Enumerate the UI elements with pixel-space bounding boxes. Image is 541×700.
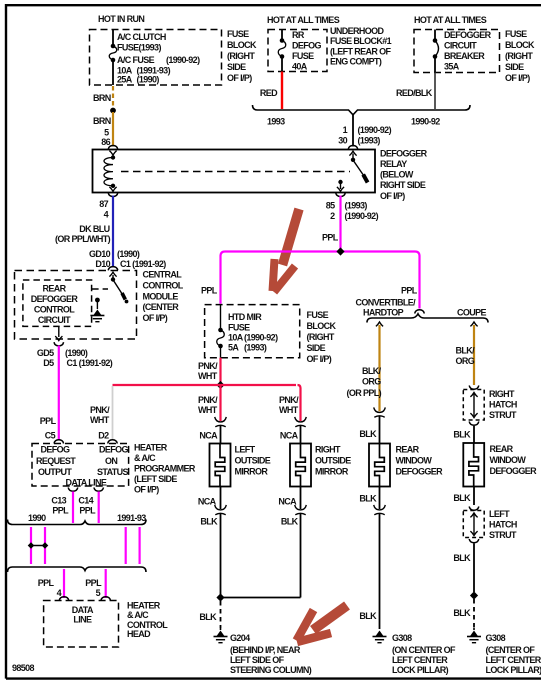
wire into A/C fuse: [112, 30, 114, 46]
relay coil: [104, 158, 113, 186]
svg-text:D10: D10: [95, 259, 110, 269]
svg-text:C14: C14: [78, 496, 93, 506]
wire PPL bus horizontal: [221, 252, 420, 309]
connector bump pin 85: [336, 193, 346, 197]
splice dot BRN: [110, 108, 116, 114]
wire below left mirror: [220, 487, 222, 510]
fuse A/C CLUTCH/A-C FUSE: [111, 44, 116, 49]
fuse RR DEFOG 40A: [280, 38, 285, 43]
brace 1990/1991-93 top: [8, 520, 147, 525]
svg-text:OUTSIDE: OUTSIDE: [235, 456, 271, 466]
svg-text:RIGHT SIDE: RIGHT SIDE: [380, 180, 426, 190]
data line box: [44, 601, 119, 648]
wire into RR fuse: [281, 30, 283, 41]
connector bump GD5: [54, 342, 64, 346]
fuse block box (RR DEFOG): [268, 30, 327, 72]
wire 1990 splice right: [44, 527, 46, 564]
svg-text:STRUT: STRUT: [489, 530, 517, 540]
svg-text:BRN: BRN: [93, 93, 111, 103]
wire into right mirror: [300, 426, 302, 444]
svg-text:(1990-92): (1990-92): [166, 55, 200, 65]
svg-text:BLK: BLK: [359, 494, 377, 504]
svg-text:(BEHIND I/P, NEAR: (BEHIND I/P, NEAR: [230, 645, 301, 655]
svg-text:4: 4: [57, 588, 62, 598]
wire into left mirror: [220, 426, 222, 444]
svg-text:C5: C5: [45, 431, 56, 441]
svg-text:G204: G204: [230, 633, 250, 643]
relay pin87 arrow: [109, 187, 116, 191]
rear window defogger box (conv): [369, 444, 390, 487]
svg-text:ORG: ORG: [456, 356, 475, 366]
relay coil bottom dot: [111, 184, 115, 188]
svg-text:PPL: PPL: [40, 416, 57, 426]
svg-text:BLK: BLK: [199, 612, 217, 622]
svg-text:LEFT CENTER: LEFT CENTER: [392, 655, 448, 665]
left outside mirror box: [210, 444, 231, 487]
svg-text:UNDERHOOD: UNDERHOOD: [330, 26, 385, 36]
svg-text:OUTSIDE: OUTSIDE: [315, 456, 351, 466]
svg-text:STEERING COLUMN): STEERING COLUMN): [230, 665, 312, 675]
svg-text:RIGHT: RIGHT: [489, 389, 515, 399]
ccm switch end dot: [125, 300, 129, 304]
svg-text:85: 85: [326, 201, 335, 211]
left mirror grid: [215, 444, 225, 487]
svg-text:GD5: GD5: [37, 348, 54, 358]
svg-text:1991-93: 1991-93: [117, 513, 146, 523]
wire below right mirror: [300, 487, 302, 510]
svg-text:LINE: LINE: [73, 615, 92, 625]
ccm pin arrow up: [109, 272, 116, 276]
svg-text:ENG COMPT): ENG COMPT): [330, 57, 382, 67]
svg-text:PROGRAMMER: PROGRAMMER: [134, 464, 196, 474]
connector inline left mirror bottom: [215, 505, 227, 510]
left strut arrow: [473, 515, 475, 535]
svg-text:PPL: PPL: [322, 233, 339, 243]
connector bump C14: [94, 488, 104, 492]
svg-text:(CENTER: (CENTER: [143, 302, 180, 312]
connector bump pin5: [101, 597, 111, 601]
svg-text:HATCH: HATCH: [489, 520, 517, 530]
svg-text:(RIGHT: (RIGHT: [227, 51, 255, 61]
svg-text:REAR: REAR: [42, 284, 66, 294]
svg-text:A/C FUSE: A/C FUSE: [117, 55, 155, 65]
wire PPL pin4: [63, 569, 65, 598]
ground G204: [217, 631, 225, 637]
svg-text:STRUT: STRUT: [489, 410, 517, 420]
svg-text:FUSE: FUSE: [505, 29, 527, 39]
wire PPL from pin85: [339, 196, 341, 252]
relay link dashed: [121, 171, 350, 173]
svg-text:WHT: WHT: [90, 415, 110, 425]
svg-text:BLK: BLK: [453, 553, 471, 563]
wire DK BLU: [112, 196, 114, 268]
svg-text:MIRROR: MIRROR: [315, 467, 349, 477]
svg-text:C13: C13: [51, 496, 66, 506]
wire BLK dashed to G204: [220, 601, 222, 628]
svg-text:LEFT CENTER: LEFT CENTER: [486, 655, 541, 665]
svg-text:RED: RED: [260, 88, 278, 98]
callout arrow upper: [273, 209, 300, 292]
svg-text:FUSE(1993): FUSE(1993): [117, 43, 161, 53]
connector bump D2: [108, 440, 118, 444]
connector bump left strut bottom: [469, 539, 479, 543]
wire PPL C14: [98, 492, 100, 524]
svg-text:(1990-92): (1990-92): [244, 333, 278, 343]
svg-text:OF I/P): OF I/P): [505, 73, 530, 83]
svg-text:OF I/P): OF I/P): [134, 485, 159, 495]
connector bump pin 86: [108, 146, 118, 150]
svg-text:HOT IN RUN: HOT IN RUN: [98, 14, 144, 24]
svg-text:OF I/P): OF I/P): [307, 354, 332, 364]
svg-text:G308: G308: [486, 633, 506, 643]
svg-text:98508: 98508: [12, 663, 35, 673]
svg-text:COUPE: COUPE: [457, 308, 487, 318]
svg-text:35A: 35A: [444, 62, 460, 72]
svg-text:NCA: NCA: [199, 431, 218, 441]
svg-text:PPL: PPL: [201, 286, 218, 296]
ccm ground stem: [96, 302, 98, 309]
svg-text:10A: 10A: [228, 333, 244, 343]
wire right mirror ground leg: [300, 514, 302, 598]
wire conv ground leg: [379, 514, 381, 629]
svg-text:CIRCUIT: CIRCUIT: [38, 315, 71, 325]
right hatch strut box: [463, 390, 484, 421]
svg-text:MODULE: MODULE: [143, 292, 179, 302]
svg-text:SIDE: SIDE: [227, 62, 246, 72]
svg-text:BLOCK: BLOCK: [505, 40, 535, 50]
fuse block box (DEFOGGER BREAKER): [414, 30, 500, 73]
svg-text:PNK/: PNK/: [90, 405, 110, 415]
svg-text:25A: 25A: [117, 75, 133, 85]
svg-text:87: 87: [99, 199, 108, 209]
svg-text:(1990-92): (1990-92): [345, 211, 379, 221]
wire below RR fuse: [281, 57, 283, 72]
ccm exit arrow: [55, 336, 62, 340]
svg-text:DATA: DATA: [72, 605, 94, 615]
svg-text:C1 (1991-92): C1 (1991-92): [67, 358, 113, 368]
svg-text:CENTRAL: CENTRAL: [143, 270, 183, 280]
arrow up convertible: [376, 322, 383, 326]
wire RED/BLK: [434, 73, 436, 110]
relay output dot: [338, 180, 342, 184]
svg-text:DEFOGGER: DEFOGGER: [396, 467, 444, 477]
svg-text:NCA: NCA: [198, 497, 217, 507]
svg-text:G308: G308: [392, 633, 412, 643]
svg-text:ON: ON: [105, 456, 117, 466]
svg-text:FUSE: FUSE: [292, 51, 314, 61]
svg-text:PPL: PPL: [38, 578, 55, 588]
brace convertible/coupe: [367, 314, 488, 323]
right mirror grid: [296, 444, 306, 487]
fuse HTD MIR: [218, 328, 223, 333]
relay switch blade: [354, 162, 364, 177]
connector bump strut top: [469, 386, 479, 390]
svg-text:DEFOGGER: DEFOGGER: [31, 294, 79, 304]
wire PPL C13: [72, 492, 74, 524]
svg-text:HOT AT ALL TIMES: HOT AT ALL TIMES: [267, 15, 340, 25]
wire PPL pin5: [105, 569, 107, 598]
svg-text:(LEFT REAR OF: (LEFT REAR OF: [330, 46, 392, 56]
wire PNK left mirror drop: [219, 385, 221, 421]
svg-text:PPL: PPL: [79, 506, 96, 516]
svg-text:DEFOGGER: DEFOGGER: [490, 466, 538, 476]
svg-text:BLOCK: BLOCK: [227, 40, 257, 50]
svg-text:BRN: BRN: [93, 116, 111, 126]
wire below conv defogger: [379, 487, 381, 510]
svg-text:(CENTER OF: (CENTER OF: [486, 645, 536, 655]
wire below breaker: [434, 57, 436, 73]
svg-text:LEFT: LEFT: [489, 509, 510, 519]
svg-text:D5: D5: [43, 358, 54, 368]
wire PPL to C5: [58, 346, 60, 441]
svg-text:OUTPUT: OUTPUT: [38, 467, 72, 477]
ccm internal ground: [94, 310, 102, 316]
svg-text:1990-92: 1990-92: [411, 117, 440, 127]
relay coil top dot: [111, 155, 115, 159]
svg-text:(1993): (1993): [345, 201, 368, 211]
svg-text:WINDOW: WINDOW: [490, 455, 527, 465]
svg-text:RELAY: RELAY: [380, 159, 407, 169]
svg-text:(1993): (1993): [244, 343, 267, 353]
svg-text:40A: 40A: [292, 62, 308, 72]
svg-text:D2: D2: [98, 431, 109, 441]
arrow up coupe: [470, 322, 477, 326]
svg-text:2: 2: [330, 211, 335, 221]
right outside mirror box: [290, 444, 311, 487]
svg-text:HEATER: HEATER: [134, 443, 168, 453]
svg-text:PPL: PPL: [85, 578, 102, 588]
splice 1990 diamonds: [28, 542, 35, 549]
wire BLK/ORG convertible: [378, 325, 380, 411]
wire below HTD MIR fuse: [220, 346, 222, 358]
connector inline right mirror bottom: [295, 505, 307, 510]
svg-text:(1990): (1990): [137, 75, 160, 85]
ground G308 right: [470, 631, 478, 637]
svg-text:SIDE: SIDE: [307, 343, 326, 353]
ccm dashed link: [92, 288, 108, 290]
svg-text:4: 4: [104, 210, 109, 220]
svg-text:DEFOGGER: DEFOGGER: [380, 149, 428, 159]
svg-text:DK BLU: DK BLU: [79, 224, 109, 234]
wire BLK/ORG coupe: [473, 325, 475, 385]
relay switch pivot dot: [351, 158, 355, 162]
svg-text:CONTROL: CONTROL: [34, 305, 75, 315]
svg-text:HARDTOP: HARDTOP: [363, 308, 404, 318]
svg-text:BLK: BLK: [453, 430, 471, 440]
svg-text:(1993): (1993): [358, 136, 381, 146]
heater a/c programmer box: [32, 444, 129, 487]
junction diamond coupe: [470, 591, 478, 599]
svg-text:C1 (1991-92): C1 (1991-92): [120, 259, 166, 269]
svg-text:REAR: REAR: [490, 444, 514, 454]
svg-text:HOT AT ALL TIMES: HOT AT ALL TIMES: [414, 15, 487, 25]
svg-text:(1990): (1990): [65, 348, 88, 358]
wire PNK below fuse: [219, 358, 221, 383]
svg-text:WHT: WHT: [279, 405, 299, 415]
svg-text:PPL: PPL: [401, 286, 418, 296]
connector bump pin 87: [108, 193, 118, 197]
connector bump brace feed: [415, 310, 425, 314]
svg-text:ORG: ORG: [362, 377, 381, 387]
connector bump pin 30: [348, 146, 358, 150]
ccm switch pivot dot: [111, 277, 115, 281]
svg-text:OF I/P): OF I/P): [227, 73, 252, 83]
ccm switch blade: [114, 281, 123, 295]
svg-text:5A: 5A: [228, 343, 239, 353]
svg-text:LOCK PILLAR): LOCK PILLAR): [486, 665, 541, 675]
svg-text:BLK/: BLK/: [456, 346, 476, 356]
connector bump C5: [54, 440, 64, 444]
svg-text:RR: RR: [292, 30, 305, 40]
svg-text:WHT: WHT: [198, 405, 218, 415]
svg-text:LOCK PILLAR): LOCK PILLAR): [392, 665, 449, 675]
svg-text:BLK: BLK: [453, 608, 471, 618]
ccm ground dot: [95, 298, 100, 303]
junction diamond PNK: [216, 381, 224, 389]
svg-text:DEFOG: DEFOG: [292, 41, 322, 51]
ground G308 left: [376, 631, 384, 637]
svg-text:WINDOW: WINDOW: [396, 456, 433, 466]
svg-text:1990: 1990: [28, 513, 46, 523]
svg-text:REQUEST: REQUEST: [36, 456, 76, 466]
wire mirrors ground bus: [220, 597, 301, 599]
central control module box: [15, 271, 137, 340]
svg-text:BLK: BLK: [281, 517, 299, 527]
relay pin30 arrow: [349, 151, 356, 155]
fuse block box (HTD MIR): [205, 305, 300, 358]
svg-text:DEFOGGER: DEFOGGER: [444, 30, 492, 40]
svg-text:HATCH: HATCH: [489, 400, 517, 410]
svg-text:(RIGHT: (RIGHT: [505, 51, 533, 61]
brace 1990/1991-93 bottom: [8, 567, 147, 572]
brace 1993/1990-92 feed: [253, 105, 471, 115]
svg-text:5: 5: [104, 128, 109, 138]
relay box: [93, 150, 376, 193]
conv defogger grid: [375, 444, 385, 487]
left hatch strut box: [463, 511, 484, 538]
svg-text:LEFT: LEFT: [235, 445, 256, 455]
ccm exit wire: [58, 326, 60, 337]
callout arrow lower: [297, 606, 348, 643]
svg-text:FUSE: FUSE: [307, 310, 329, 320]
svg-text:BREAKER: BREAKER: [444, 51, 485, 61]
svg-text:1993: 1993: [267, 117, 285, 127]
svg-text:DEFOG: DEFOG: [99, 445, 129, 455]
svg-text:FUSE: FUSE: [227, 29, 249, 39]
wire left mirror ground leg: [220, 514, 222, 598]
circuit breaker 35A: [433, 38, 438, 43]
connector bump left strut top: [469, 507, 479, 511]
svg-text:(RIGHT: (RIGHT: [307, 332, 335, 342]
wire BRN dashed: [112, 86, 114, 108]
wire into HTD MIR fuse: [220, 305, 222, 330]
svg-text:FUSE: FUSE: [228, 323, 250, 333]
junction diamond mirrors: [216, 593, 224, 601]
svg-text:(1990): (1990): [117, 249, 140, 259]
svg-text:BLK: BLK: [200, 517, 218, 527]
wire BLK dashed to G308 right: [473, 599, 475, 628]
wire PNK right corner: [298, 385, 301, 421]
svg-text:WHT: WHT: [198, 371, 218, 381]
svg-text:GD10: GD10: [89, 249, 111, 259]
wire brace to relay pin30: [352, 115, 354, 147]
connector bump strut bottom: [469, 422, 479, 426]
svg-text:OF I/P): OF I/P): [380, 191, 405, 201]
connector inline convertible: [374, 407, 386, 412]
svg-text:BLK: BLK: [453, 493, 471, 503]
svg-text:RIGHT: RIGHT: [315, 445, 341, 455]
svg-text:STATUS: STATUS: [97, 467, 129, 477]
svg-text:CIRCUIT: CIRCUIT: [444, 41, 477, 51]
svg-text:RED/BLK: RED/BLK: [396, 88, 433, 98]
svg-text:HEAD: HEAD: [127, 629, 151, 639]
wire into conv defogger: [379, 417, 381, 444]
wire strut to defogger: [473, 426, 475, 443]
svg-text:REAR: REAR: [396, 445, 420, 455]
svg-text:LEFT SIDE OF: LEFT SIDE OF: [230, 655, 285, 665]
svg-text:CONVERTIBLE/: CONVERTIBLE/: [356, 298, 417, 308]
svg-text:DEFOG: DEFOG: [41, 445, 71, 455]
svg-text:PNK/: PNK/: [198, 395, 218, 405]
junction diamond PPL bus: [336, 247, 344, 255]
svg-text:A/C CLUTCH: A/C CLUTCH: [117, 32, 166, 42]
wire 1991-93 left: [125, 527, 127, 564]
wire 1990 splice left: [30, 527, 32, 564]
svg-text:DATA LINE: DATA LINE: [66, 478, 107, 488]
svg-text:BLK/: BLK/: [362, 366, 382, 376]
connector bump C13: [68, 488, 78, 492]
wire into breaker: [434, 30, 436, 41]
svg-text:BLK: BLK: [359, 429, 377, 439]
relay pin86 arrow: [109, 151, 116, 155]
wire WHT to D2: [112, 386, 114, 441]
svg-text:NCA: NCA: [280, 431, 299, 441]
connector inline conv bottom: [374, 505, 386, 510]
right strut arrow: [473, 394, 475, 416]
svg-text:SIDE: SIDE: [505, 62, 524, 72]
connector bump pin4: [59, 597, 69, 601]
relay output arrow: [340, 184, 342, 190]
svg-text:(OR PPL/WHT): (OR PPL/WHT): [55, 234, 111, 244]
svg-text:86: 86: [101, 137, 110, 147]
connector inline right mirror top: [295, 417, 307, 422]
connector inline left mirror top: [215, 417, 227, 422]
wire 1991-93 right: [139, 527, 141, 564]
wire below A/C fuse: [112, 60, 114, 85]
fuse block box (A/C fuses): [90, 30, 222, 86]
svg-text:30: 30: [338, 136, 347, 146]
connector bump D10: [108, 267, 118, 271]
rear defogger control circuit box: [23, 280, 92, 326]
wire defogger to left strut: [473, 487, 475, 506]
svg-text:FUSE BLOCK#1: FUSE BLOCK#1: [330, 36, 392, 46]
svg-text:PPL: PPL: [52, 506, 69, 516]
wire coupe ground leg: [473, 544, 475, 593]
coupe defogger grid: [469, 443, 479, 487]
svg-text:(OR PPL): (OR PPL): [347, 388, 382, 398]
wire BRN solid: [112, 112, 114, 147]
rear window defogger box (coupe): [463, 443, 484, 487]
svg-text:BLK: BLK: [359, 611, 377, 621]
wire PNK horizontal: [113, 384, 297, 386]
svg-text:PNK/: PNK/: [279, 395, 299, 405]
svg-text:(LEFT SIDE: (LEFT SIDE: [134, 474, 177, 484]
svg-text:PNK/: PNK/: [198, 361, 218, 371]
svg-text:CONTROL: CONTROL: [143, 281, 184, 291]
wire RED: [281, 72, 283, 110]
svg-text:HTD MIR: HTD MIR: [228, 312, 262, 322]
svg-text:OF I/P): OF I/P): [143, 313, 168, 323]
